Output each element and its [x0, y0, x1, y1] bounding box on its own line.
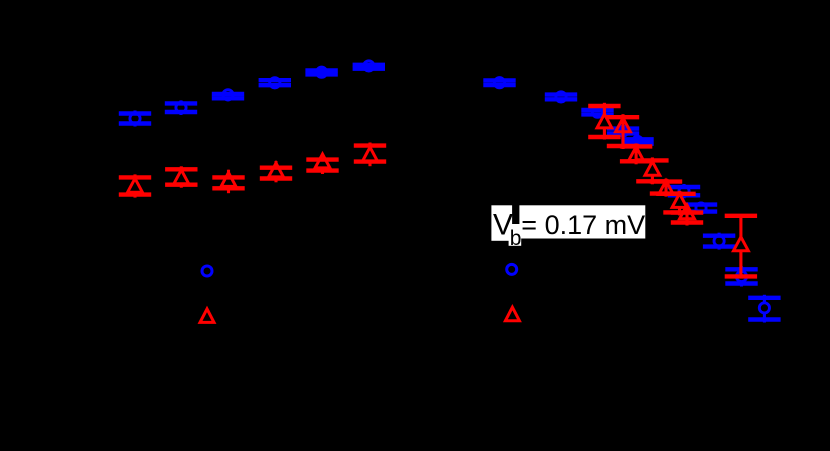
red data point R5: open triangle marker with vertical error bar and caps [306, 154, 338, 174]
blue data point B16: open circle marker with vertical error bar and caps [748, 295, 780, 323]
legend 1 blue circle marker [202, 266, 212, 276]
white background box for subscript b [509, 224, 522, 246]
red data point R4: open triangle marker with vertical error bar and caps [260, 161, 292, 182]
red data point R6: open triangle marker with vertical error bar and caps [354, 143, 386, 167]
red data point R7: open triangle marker with vertical error bar and caps [588, 103, 620, 140]
blue data point B3: open circle marker with vertical error bar and caps [212, 90, 244, 102]
red data point R8: open triangle marker with vertical error bar and caps [607, 114, 639, 149]
blue data point B4: open circle marker with vertical error bar and caps [259, 77, 291, 88]
red data point R12: open triangle marker with vertical error bar and caps [663, 191, 695, 216]
legend 1 red triangle marker [200, 309, 214, 323]
blue data point B8: open circle marker with vertical error bar and caps [545, 92, 577, 103]
blue data point B7: open circle marker with vertical error bar and caps [483, 77, 515, 88]
red data point R13: open triangle marker with vertical error bar and caps [671, 205, 703, 226]
legend 2 red triangle marker [505, 307, 519, 321]
red data point R10: open triangle marker with vertical error bar and caps [636, 157, 668, 184]
blue data point B1: open circle marker with vertical error bar and caps [119, 111, 151, 127]
blue data point B10: open circle marker with vertical error bar and caps [607, 126, 639, 137]
red data point R3: open triangle marker with vertical error bar and caps [212, 170, 244, 194]
legend 2 blue circle marker [507, 264, 517, 274]
red data point R14: open triangle marker with vertical error bar and caps [725, 216, 757, 278]
red data point R1: open triangle marker with vertical error bar and caps [119, 174, 151, 197]
red data point R9: open triangle marker with vertical error bar and caps [620, 143, 652, 164]
blue data point B6: open circle marker with vertical error bar and caps [353, 61, 385, 72]
blue data point B14: open circle marker with vertical error bar and caps [703, 233, 735, 250]
blue data point B15: open circle marker with vertical error bar and caps [725, 266, 757, 286]
red data point R11: open triangle marker with vertical error bar and caps [650, 179, 682, 197]
svg-text:= 0.17 mV: = 0.17 mV [521, 210, 645, 240]
blue data point B9: open circle marker with vertical error bar and caps [581, 107, 613, 118]
blue data point B2: open circle marker with vertical error bar and caps [165, 100, 197, 115]
blue data point B11: open circle marker with vertical error bar and caps [621, 136, 653, 146]
white background box for label text = 0.17 mV [519, 205, 645, 238]
white background box for label text V [491, 205, 512, 241]
blue data point B12: open circle marker with vertical error bar and caps [668, 184, 700, 198]
red data point R2: open triangle marker with vertical error bar and caps [165, 166, 197, 187]
blue data point B13: open circle marker with vertical error bar and caps [685, 202, 717, 215]
svg-text:b: b [510, 227, 522, 250]
blue data point B5: open circle marker with vertical error bar and caps [305, 67, 337, 77]
